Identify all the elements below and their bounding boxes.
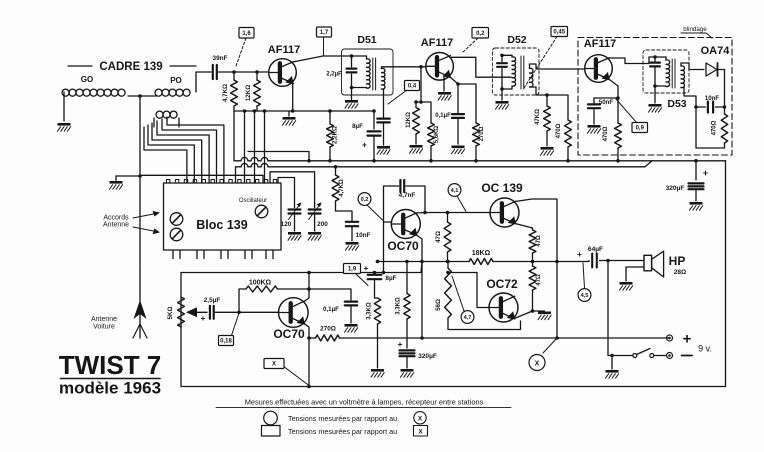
ground under GO [58, 123, 71, 131]
svg-text:64µF: 64µF [588, 246, 603, 253]
trimmer capacitor 200 [309, 202, 329, 231]
wire trimmer 120 riser [278, 178, 295, 208]
IF transformer D52 box [492, 48, 539, 95]
svg-text:3,3KΩ: 3,3KΩ [367, 302, 373, 320]
svg-text:+: + [201, 313, 206, 323]
wire D53 top [649, 55, 666, 63]
svg-text:Mesures effectuées avec un vol: Mesures effectuées avec un voltmètre à l… [245, 398, 484, 407]
wire detector RC bottom [696, 107, 725, 148]
bus line A (+HT) [234, 111, 726, 161]
legend boxed X [414, 426, 428, 437]
wire IF verticals with hops [243, 109, 267, 183]
svg-text:56Ω: 56Ω [435, 299, 442, 311]
wire D51 secondary bottom AGC [382, 89, 384, 117]
ground under 50nF [588, 125, 601, 133]
svg-text:12KΩ: 12KΩ [406, 112, 412, 128]
wire coupling coil legs [154, 118, 179, 127]
svg-text:4,7KΩ: 4,7KΩ [339, 179, 345, 197]
ground under speaker [620, 282, 633, 290]
wire base node to AF117 Q1 [234, 71, 268, 73]
capacitor 320uF stage [398, 319, 437, 368]
svg-text:Antenne: Antenne [103, 222, 129, 229]
wire emitter rail y111 [234, 110, 374, 112]
wire shield line E [140, 175, 263, 183]
wire chassis mid (y=272.5) [181, 262, 422, 275]
wire base node OC70-1 [237, 287, 311, 314]
capacitor in D52 [497, 55, 507, 89]
label Accords Antenne [103, 215, 129, 229]
svg-text:47Ω: 47Ω [435, 231, 442, 243]
svg-text:Tensions mesurées par rapport: Tensions mesurées par rapport au [288, 414, 397, 423]
legend circle symbol [264, 411, 278, 425]
label blindage [681, 26, 712, 38]
capacitor 50nF in shield [588, 96, 620, 124]
inductor D51 secondary [382, 68, 385, 89]
switch [633, 349, 667, 358]
wire OC70-1 collector [304, 273, 309, 302]
wire GO-PO junction [128, 94, 156, 98]
wire Q2 base bias [419, 65, 425, 104]
resistor 47KOhm AGC [535, 93, 550, 146]
bus + rail lower [378, 337, 670, 339]
svg-text:0,1µF: 0,1µF [435, 113, 451, 119]
value box 0,45 [524, 27, 568, 89]
label minus [682, 355, 693, 357]
svg-text:8µF: 8µF [385, 275, 396, 282]
value box 1,9 [344, 264, 369, 286]
circled value 4,7 [452, 276, 474, 323]
resistor 4,7Ohm upper [529, 228, 542, 263]
ground on minus line [606, 356, 619, 379]
svg-text:OC72: OC72 [486, 277, 518, 291]
wire detector output [723, 70, 727, 109]
label OC 139 [481, 181, 523, 195]
svg-text:X: X [418, 415, 423, 422]
outer frame right edge [725, 161, 727, 387]
svg-text:1,7: 1,7 [320, 30, 329, 36]
wire D51 secondary top to Q2 base [382, 67, 427, 69]
svg-text:2,2µF: 2,2µF [326, 72, 342, 78]
legend title underline [216, 407, 511, 409]
circled value 4,1 [448, 184, 466, 212]
svg-text:AF117: AF117 [268, 44, 300, 56]
svg-text:120: 120 [281, 221, 292, 228]
resistor 3,3KOhm left [367, 298, 381, 368]
wire D53 primary bottom [653, 84, 666, 88]
svg-text:4,5: 4,5 [581, 293, 589, 299]
inductor D53 primary [666, 60, 670, 87]
svg-text:AF117: AF117 [584, 38, 616, 50]
inductor D52 secondary [530, 68, 533, 87]
label GO [81, 75, 93, 84]
ground under 10nF mid [346, 242, 359, 250]
capacitor 8uF stage2 [364, 263, 397, 298]
label TWIST 7 [59, 350, 162, 380]
label D53 [667, 98, 686, 110]
ground under 120 [288, 232, 301, 240]
label CADRE 139 with dashes [68, 61, 196, 73]
rail 18K (mid rail) [376, 260, 589, 264]
capacitor 2,5uF [201, 297, 239, 323]
svg-text:OA74: OA74 [701, 45, 731, 57]
wire D53 secondary return [681, 88, 698, 109]
transistor OC72 [489, 293, 518, 322]
svg-text:9 v.: 9 v. [698, 344, 712, 354]
value box 1,6 [236, 28, 254, 67]
svg-text:470Ω: 470Ω [556, 123, 562, 138]
resistor 3,3KOhm right [396, 260, 411, 319]
ground under Q2 emitter [438, 92, 451, 100]
svg-text:200: 200 [317, 221, 328, 228]
capacitor 39nF [205, 65, 234, 79]
svg-text:10nF: 10nF [356, 232, 371, 239]
wire 64uF to speaker [600, 259, 645, 263]
wire Q1 collector to D51 [293, 56, 344, 62]
value box 0,18 [219, 313, 240, 346]
inductor PO (cadre winding) [155, 89, 190, 96]
wire OC70-2 collector to OC139 base [417, 211, 491, 215]
core D52 [521, 56, 524, 89]
ground under 320uF top [690, 202, 703, 210]
label HP 28ohm [669, 254, 687, 276]
svg-text:+: + [683, 331, 692, 348]
svg-text:18KΩ: 18KΩ [472, 250, 491, 257]
svg-text:Antenne: Antenne [91, 316, 117, 323]
wire Q3 collector [609, 58, 649, 64]
capacitor 320uF top right [666, 159, 709, 201]
wire bundle bloc to coils [144, 117, 224, 183]
Bloc 139 bottom pins [173, 250, 273, 259]
ground under 200 [308, 232, 321, 240]
capacitor 8uF electrolytic [362, 131, 380, 162]
label Bloc 139 [196, 218, 247, 232]
svg-text:D53: D53 [667, 98, 686, 110]
svg-text:Bloc 139: Bloc 139 [196, 218, 247, 232]
transistor Q3 AF117 [585, 55, 613, 83]
svg-text:12KΩ: 12KΩ [245, 85, 252, 101]
trimmer screw accord 2 [170, 228, 183, 241]
svg-text:+: + [364, 263, 369, 273]
wire Q2 emitter node [450, 77, 460, 95]
legend square symbol [262, 426, 281, 437]
value box 0,9 [616, 99, 648, 133]
wire 4,7 lower bottom [533, 309, 545, 311]
transistor Q1 AF117 [269, 59, 297, 87]
resistor 12KOhm [245, 70, 260, 111]
svg-text:1,6: 1,6 [242, 31, 251, 37]
svg-text:270Ω: 270Ω [479, 126, 485, 141]
wire D52 top [500, 54, 512, 58]
wire OC139 emitter [515, 224, 532, 229]
label 10nF det [705, 95, 720, 102]
svg-text:8µF: 8µF [352, 123, 363, 130]
svg-text:modèle 1963: modèle 1963 [59, 379, 161, 398]
wire D53 secondary to diode [681, 63, 704, 70]
svg-text:D51: D51 [357, 34, 376, 46]
ground under D51 [345, 88, 358, 109]
svg-text:2,2KΩ: 2,2KΩ [332, 126, 339, 144]
resistor 18KOhm [469, 250, 493, 265]
label plus [683, 331, 692, 348]
wire shield ground branch [116, 174, 142, 178]
capacitor 2,2uF in D51 [347, 56, 357, 88]
IF transformer D53 box [643, 50, 689, 93]
inductor GO (cadre winding) [62, 89, 125, 96]
label PO [170, 76, 182, 85]
svg-text:50nF: 50nF [599, 99, 614, 106]
wire Q2 collector to D52 [450, 57, 511, 77]
wire PO right end up to 39nF [196, 72, 205, 92]
ground under D52 [496, 89, 509, 109]
svg-text:0,4: 0,4 [408, 84, 417, 90]
value box 1,7 [317, 27, 332, 56]
capacitor 10nF det [696, 102, 725, 113]
wire OC72 emitter to ground [514, 309, 534, 318]
capacitor 10nF mid [346, 222, 358, 241]
label 2,2uF [326, 72, 342, 78]
svg-text:+: + [577, 249, 582, 259]
battery terminal minus [667, 353, 673, 359]
outer frame left edge [180, 273, 182, 387]
capacitor AGC 0,1uF [377, 119, 389, 145]
wire OC139 collector [515, 199, 559, 340]
inductor D53 secondary [681, 66, 684, 88]
wire speaker minus line [608, 261, 633, 358]
svg-text:470Ω: 470Ω [712, 120, 718, 135]
capacitor 4,7nF feedback [384, 180, 426, 222]
svg-text:4,7: 4,7 [464, 315, 472, 321]
speaker HP [644, 251, 664, 277]
svg-text:0,1µF: 0,1µF [323, 306, 339, 313]
wire D52 secondary top to Q3 [530, 64, 584, 69]
label Oscillateur [239, 198, 267, 204]
core D53 [672, 59, 675, 88]
wire speaker return to ground [626, 267, 644, 281]
svg-text:+: + [362, 140, 367, 150]
resistor 470Ohm det out [712, 107, 728, 148]
arrows accords antenne [133, 211, 160, 234]
svg-text:+: + [398, 339, 403, 349]
ground under 3,3K left [371, 369, 384, 377]
trimmer screw accord 1 [170, 213, 183, 226]
svg-text:2,5µF: 2,5µF [204, 297, 221, 304]
svg-text:100KΩ: 100KΩ [249, 280, 272, 287]
wire D51 primary bottom [350, 86, 367, 90]
inductor D51 primary [367, 59, 371, 88]
capacitor 0,1uF preamp [309, 289, 357, 323]
svg-text:D52: D52 [507, 34, 526, 46]
wire GO left end down [63, 92, 65, 121]
Bloc 139 top pins [167, 180, 277, 184]
legend title [245, 398, 484, 407]
label 8uF [352, 123, 363, 130]
value box 0,2 top [462, 28, 489, 54]
transistor Q2 AF117 [426, 53, 454, 81]
svg-text:4,1: 4,1 [451, 188, 459, 194]
svg-text:3,3KΩ: 3,3KΩ [396, 297, 402, 315]
core D51 [373, 58, 376, 90]
value box X [264, 359, 309, 386]
label OA74 [701, 45, 731, 57]
ground under 0,1uF [452, 146, 465, 154]
label AF117 Q2 [421, 37, 453, 49]
wire OC70-1 emitter [304, 324, 311, 389]
ground right of OC72 [538, 312, 551, 320]
wire emitter to 270 ohm [458, 84, 476, 123]
IF transformer D51 box [342, 49, 394, 95]
svg-text:320µF: 320µF [418, 353, 437, 360]
wire antenna line from junction [139, 96, 141, 176]
svg-text:4,7KΩ: 4,7KΩ [222, 84, 229, 102]
ground under 120Ohm [410, 145, 423, 153]
transistor OC70 stage2 [391, 210, 420, 239]
svg-text:0,2: 0,2 [476, 31, 485, 37]
svg-text:320µF: 320µF [666, 185, 685, 192]
circled X chassis [529, 338, 557, 371]
svg-text:Accords: Accords [103, 215, 129, 222]
svg-text:47KΩ: 47KΩ [535, 109, 541, 125]
wire OC72 bottom box [448, 321, 521, 330]
svg-text:Voiture: Voiture [93, 324, 115, 331]
ground under 47KOhm [541, 147, 554, 155]
circled value 0,2 [358, 193, 382, 220]
label OC72 [486, 277, 518, 291]
value box 0,4 [388, 81, 420, 105]
capacitor in D53 [650, 57, 660, 86]
resistor 470Ohm in shield [603, 123, 621, 163]
svg-text:4,7nF: 4,7nF [399, 192, 416, 199]
resistor 270Ohm Q2 [473, 123, 485, 163]
label 10nF mid [356, 232, 371, 239]
node 39nF/4.7K junction [232, 70, 236, 74]
svg-text:CADRE 139: CADRE 139 [99, 61, 162, 73]
wire antenna line lower [139, 176, 141, 270]
svg-text:X: X [272, 362, 276, 368]
resistor 4,7KOhm osc [332, 165, 345, 211]
svg-text:47Ω: 47Ω [536, 274, 542, 286]
wire Q2 emitter ground stub [443, 76, 445, 91]
label AF117 Q3 [584, 38, 616, 50]
svg-text:5KΩ: 5KΩ [167, 307, 174, 320]
shield box blindage (dashed) [578, 38, 732, 156]
label Antenne Voiture [91, 316, 117, 331]
capacitor 0,1uF under Q2 [435, 95, 464, 144]
resistor 100KOhm [239, 280, 311, 313]
svg-text:5,6KΩ: 5,6KΩ [434, 126, 440, 144]
resistor 4,7Ohm lower [529, 262, 542, 310]
trimmer screw oscillateur [255, 205, 268, 218]
svg-text:X: X [535, 360, 540, 367]
svg-text:blindage: blindage [683, 26, 707, 33]
resistor 56Ohm [435, 260, 451, 330]
coupling coil below PO [156, 111, 177, 118]
wire line D upper [248, 152, 311, 163]
label modele 1963 [59, 379, 161, 398]
wire Q3 emitter line [609, 79, 618, 123]
outer frame bottom edge [181, 386, 726, 388]
inductor D52 primary [512, 57, 516, 86]
svg-text:+: + [703, 168, 708, 178]
underline TWIST 7 [61, 378, 161, 380]
wire OC70-2 emitter [417, 235, 424, 340]
tuner module Bloc 139 box [164, 183, 282, 250]
battery terminal plus [667, 335, 673, 341]
wire D51 top [344, 54, 367, 59]
transistor OC70 stage1 [279, 298, 309, 328]
svg-text:X: X [418, 429, 423, 436]
label OC70 stage1 [273, 327, 305, 341]
resistor 270Ohm preamp [309, 326, 378, 342]
ground under 0,1uF preamp [345, 324, 358, 332]
wire trimmer 200 riser [270, 172, 315, 208]
wire OC72 base loop [446, 271, 489, 308]
wire AGC to 8uF node [372, 109, 376, 129]
resistor 2,2KOhm [327, 109, 339, 162]
label D51 [357, 34, 376, 46]
svg-text:OC 139: OC 139 [481, 181, 523, 195]
resistor 5,6KOhm [425, 102, 440, 163]
resistor 120Ohm [406, 100, 421, 144]
svg-text:47Ω: 47Ω [536, 235, 542, 247]
circled value 4,5 [578, 263, 591, 301]
wire Q1 emitter down [291, 83, 295, 113]
svg-text:OC70: OC70 [387, 239, 419, 253]
legend text 1 [288, 414, 397, 423]
wire D52 secondary bottom [530, 87, 548, 95]
potentiometer 5KOhm [167, 297, 184, 327]
wire OC70-2 base [336, 211, 392, 274]
svg-text:GO: GO [81, 75, 93, 84]
resistor 47Ohm [435, 213, 451, 264]
svg-text:HP: HP [669, 254, 686, 268]
svg-text:0,9: 0,9 [636, 126, 645, 132]
resistor 470Ohm det [547, 95, 571, 163]
bus line B (AGC) [236, 161, 653, 183]
svg-text:AF117: AF117 [421, 37, 453, 49]
resistor 4,7KOhm [222, 72, 237, 111]
capacitor 64uF [577, 246, 603, 268]
legend circled X [414, 412, 426, 424]
trimmer capacitor 120 [281, 202, 302, 231]
legend text 2 [288, 427, 397, 436]
svg-text:470Ω: 470Ω [603, 126, 609, 141]
svg-text:Oscillateur: Oscillateur [239, 198, 267, 204]
label AF117 Q1 [268, 44, 300, 56]
ground under 320uF stage [401, 369, 414, 377]
diode OA74 [706, 63, 725, 76]
transistor OC139 [490, 198, 519, 227]
svg-text:Tensions mesurées par rapport: Tensions mesurées par rapport au [288, 427, 397, 436]
ground under AGC cap [377, 146, 390, 154]
label 39nF [213, 55, 228, 62]
ground left of Bloc [110, 176, 123, 189]
label 9v [698, 344, 712, 354]
svg-text:0,18: 0,18 [220, 339, 232, 345]
pot wiper arrow [186, 307, 207, 317]
svg-text:28Ω: 28Ω [674, 269, 686, 276]
ground under D53 [649, 86, 662, 112]
svg-text:0,45: 0,45 [553, 30, 565, 36]
ground under Q1 emitter [283, 111, 296, 125]
wire 470 to 10nF [336, 211, 353, 221]
svg-text:OC70: OC70 [273, 327, 305, 341]
wire D52 primary bottom [500, 86, 512, 91]
svg-text:PO: PO [170, 76, 182, 85]
antenna voiture symbol [133, 270, 147, 338]
svg-text:39nF: 39nF [213, 55, 228, 62]
svg-text:1,9: 1,9 [348, 267, 357, 273]
label OC70 stage2 [387, 239, 419, 253]
